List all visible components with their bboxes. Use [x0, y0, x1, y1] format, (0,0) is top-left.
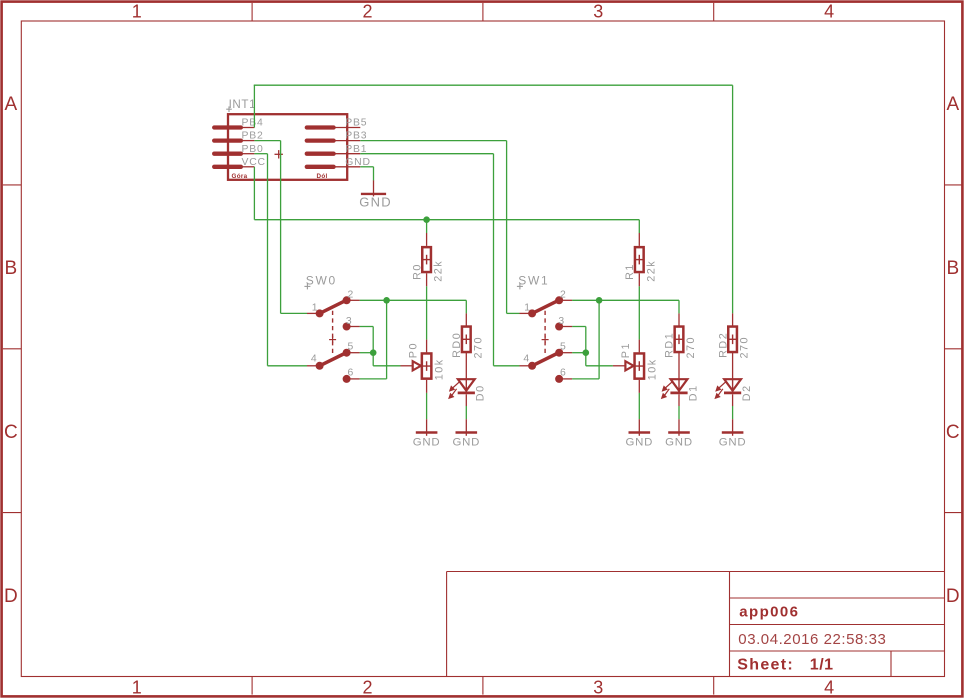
svg-text:D: D	[4, 586, 18, 607]
IC pin PB5	[307, 125, 361, 129]
wire to P0 wiper	[373, 365, 400, 367]
IC pin PB4	[214, 125, 254, 129]
svg-text:PB4: PB4	[242, 118, 264, 129]
svg-text:1: 1	[132, 678, 142, 698]
svg-text:B: B	[5, 258, 18, 279]
svg-text:PB5: PB5	[345, 118, 367, 129]
svg-text:4: 4	[824, 2, 834, 22]
pin wire R0 top	[426, 233, 428, 246]
wire net PB2 vertical	[280, 141, 282, 314]
svg-text:1: 1	[312, 302, 318, 313]
wire R1 to P1	[638, 286, 640, 339]
pin wire RD1 top	[678, 313, 680, 326]
wire net PB1 vertical	[493, 154, 495, 366]
svg-text:D2: D2	[741, 384, 753, 401]
svg-text:Dól: Dól	[317, 173, 328, 180]
svg-text:4: 4	[824, 678, 834, 698]
wire SW0 pin6	[360, 378, 387, 380]
svg-text:22k: 22k	[433, 260, 445, 282]
svg-text:RD0: RD0	[451, 332, 463, 358]
wire net VCC stub to R0	[426, 220, 428, 233]
svg-text:5: 5	[560, 342, 566, 353]
pin wire GND below P0	[426, 419, 428, 436]
ground symbol GND-P0	[416, 431, 438, 433]
wire net PB4 vertical up from pin PB4	[253, 85, 255, 127]
svg-text:2: 2	[362, 678, 372, 698]
wire net VCC stub to R1	[638, 220, 640, 233]
svg-text:GND: GND	[625, 436, 653, 448]
wire SW1 pin3	[572, 326, 586, 328]
wire R0 to P0	[426, 286, 428, 339]
pin wire D1 cathode	[678, 394, 680, 406]
wire net PB3 to SW1 pin 1	[507, 312, 520, 314]
pin wire RD0 to D0	[465, 353, 467, 379]
pin wire D0 cathode	[465, 394, 467, 406]
IC INT1 body	[228, 114, 347, 180]
pin wire P1 bottom	[638, 380, 640, 393]
wire net PB2 to SW0 pin 1	[281, 312, 307, 314]
IC pin PB0	[214, 152, 254, 156]
wire D2 to GND	[732, 406, 734, 419]
wire net PB4 vertical down to RD2	[732, 85, 734, 313]
wire SW1 pin5	[572, 352, 586, 354]
pin wire GND below D1	[678, 419, 680, 436]
wire SW1 pin3/5 vertical	[585, 327, 587, 366]
LED D2	[714, 379, 741, 399]
pin wire P1 top	[638, 340, 640, 353]
svg-text:3: 3	[346, 316, 352, 327]
potentiometer P0 (10k)	[413, 353, 432, 378]
svg-text:app006: app006	[739, 603, 799, 620]
switch SW1	[520, 296, 573, 383]
svg-text:2: 2	[348, 290, 354, 301]
LED D1	[661, 379, 688, 399]
junction net VCC at R0	[423, 216, 430, 223]
svg-text:D: D	[946, 586, 960, 607]
wire net PB0 to SW0 pin 4	[268, 365, 308, 367]
pin wire R0 bottom	[426, 273, 428, 286]
svg-text:RD1: RD1	[664, 332, 676, 358]
svg-text:P0: P0	[408, 342, 420, 358]
pin wire R1 top	[638, 233, 640, 246]
resistor RD2 (270)	[728, 327, 737, 353]
svg-text:3: 3	[558, 316, 564, 327]
pin wire GND below P1	[638, 419, 640, 436]
wire SW0 pin5	[360, 352, 374, 354]
label SW1 name	[517, 274, 550, 290]
svg-text:2: 2	[560, 290, 566, 301]
wire SW0 pin3	[360, 326, 374, 328]
svg-text:A: A	[5, 94, 18, 115]
IC INT1 origin cross	[275, 150, 283, 158]
svg-text:270: 270	[739, 336, 751, 359]
wire net PB1 horizontal at IC	[360, 153, 493, 155]
label INT1 name	[226, 98, 256, 112]
ground symbol GND-D0	[456, 431, 478, 433]
svg-text:1/1: 1/1	[810, 657, 834, 674]
svg-text:03.04.2016 22:58:33: 03.04.2016 22:58:33	[738, 631, 886, 648]
svg-text:VCC: VCC	[242, 157, 266, 168]
svg-text:GND: GND	[665, 436, 693, 448]
svg-text:1: 1	[524, 302, 530, 313]
wire net GND at IC horizontal	[360, 166, 373, 168]
wire net PB3 horizontal at IC	[360, 140, 506, 142]
title block sheet	[737, 657, 833, 674]
wire net PB1 to SW1 pin 4	[494, 365, 520, 367]
svg-text:R0: R0	[411, 263, 423, 280]
svg-text:GND: GND	[719, 436, 747, 448]
IC pin PB1	[307, 152, 361, 156]
pin wire RD0 top	[465, 313, 467, 326]
pin wire P0 bottom	[426, 380, 428, 393]
wire net VCC horizontal	[254, 219, 639, 221]
svg-text:GND: GND	[413, 436, 441, 448]
resistor RD0 (270)	[462, 327, 471, 353]
svg-text:4: 4	[311, 353, 317, 364]
wire net PB0 horizontal at IC	[254, 153, 267, 155]
svg-text:GND: GND	[452, 436, 480, 448]
pin wire RD2 top	[732, 313, 734, 326]
wire P0 to GND	[426, 393, 428, 419]
LED D0	[448, 379, 475, 399]
wire to P1 wiper	[586, 365, 613, 367]
svg-text:270: 270	[472, 336, 484, 359]
ground symbol GND-D1	[668, 431, 690, 433]
svg-text:3: 3	[593, 678, 603, 698]
wire net VCC vertical below IC	[253, 167, 255, 220]
svg-text:D0: D0	[475, 384, 487, 401]
svg-text:5: 5	[348, 342, 354, 353]
wire SW0 pin2 net vertical to pin6 row	[386, 300, 388, 379]
pin wire R1 bottom	[638, 273, 640, 286]
resistor RD1 (270)	[675, 327, 684, 353]
pin wire D2 cathode	[732, 394, 734, 406]
svg-text:C: C	[4, 422, 18, 443]
junction SW0 pin2 net	[383, 297, 390, 304]
svg-text:R1: R1	[624, 263, 636, 280]
ground pin wire under IC	[373, 180, 375, 196]
junction SW0 pin5 net	[370, 349, 377, 356]
pin wire P0 wiper	[401, 365, 413, 367]
svg-text:Sheet:: Sheet:	[737, 657, 794, 674]
wire SW0 pin3/5 vertical	[372, 327, 374, 366]
svg-text:10k: 10k	[646, 358, 658, 380]
svg-text:Góra: Góra	[232, 173, 248, 180]
svg-text:D1: D1	[687, 384, 699, 401]
svg-text:B: B	[946, 258, 959, 279]
wire net PB0 vertical	[267, 154, 269, 366]
resistor R1 (22k)	[635, 247, 644, 272]
svg-text:10k: 10k	[434, 358, 446, 380]
IC pin PB3	[307, 138, 361, 142]
wire net PB4 horizontal top	[254, 84, 733, 86]
svg-text:RD2: RD2	[717, 332, 729, 358]
resistor R0 (22k)	[422, 247, 431, 272]
svg-text:1: 1	[132, 2, 142, 22]
ground symbol GND-IC	[361, 193, 386, 195]
svg-text:2: 2	[362, 2, 372, 22]
wire SW1 pin2 net vertical to pin6 row	[598, 300, 600, 379]
IC pin VCC	[214, 165, 254, 169]
svg-text:SW1: SW1	[518, 274, 549, 288]
junction SW1 pin2 net	[596, 297, 603, 304]
svg-text:GND: GND	[359, 194, 392, 209]
pin wire RD2 to D2	[732, 353, 734, 379]
pin wire GND below D2	[732, 419, 734, 436]
junction SW1 pin5 net	[583, 349, 590, 356]
potentiometer P1 (10k)	[625, 353, 644, 378]
svg-text:SW0: SW0	[306, 274, 337, 288]
svg-text:6: 6	[560, 368, 566, 379]
wire SW1 pin6	[572, 378, 599, 380]
pin wire GND below D0	[465, 419, 467, 436]
wire net GND at IC vertical	[373, 167, 375, 181]
switch SW0	[307, 296, 360, 383]
wire down to RD0 pin	[465, 300, 467, 313]
svg-text:3: 3	[593, 2, 603, 22]
pin wire P0 top	[426, 340, 428, 353]
wire P1 to GND	[638, 393, 640, 419]
IC pin GND	[307, 165, 361, 169]
svg-text:INT1: INT1	[229, 98, 257, 111]
svg-text:C: C	[946, 422, 960, 443]
wire net PB2 horizontal at IC	[254, 140, 280, 142]
pin wire P1 wiper	[613, 365, 625, 367]
title block	[447, 572, 945, 677]
label SW0 name	[304, 274, 337, 290]
svg-text:P1: P1	[620, 342, 632, 358]
wire D0 to GND	[465, 406, 467, 419]
pin wire RD1 to D1	[678, 353, 680, 379]
svg-text:22k: 22k	[645, 260, 657, 282]
wire SW0 pin2 to RD0	[360, 299, 467, 301]
svg-text:6: 6	[348, 368, 354, 379]
svg-text:4: 4	[523, 353, 529, 364]
ground symbol GND-D2	[722, 431, 744, 433]
wire net PB3 vertical	[506, 141, 508, 314]
IC pin PB2	[214, 138, 254, 142]
svg-text:270: 270	[685, 336, 697, 359]
ground symbol GND-P1	[629, 431, 651, 433]
wire D1 to GND	[678, 406, 680, 419]
svg-text:A: A	[946, 94, 959, 115]
wire down to RD1 pin	[678, 300, 680, 313]
wire SW1 pin2 to RD1	[572, 299, 679, 301]
